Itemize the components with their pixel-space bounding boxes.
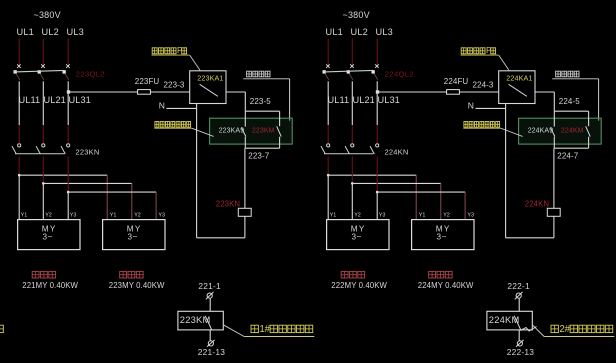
coil 224KN (right) (547, 208, 560, 216)
contact 224KM (right) (586, 126, 591, 136)
label 224KA1 (right) (506, 73, 532, 82)
wire UL31 (left) (67, 81, 69, 143)
node UL3 (left) (67, 27, 84, 37)
wire to motor1 terminal Y1 (left) (18, 175, 20, 219)
contact box 223KM (left) (178, 311, 223, 330)
wire phase UL3 incoming (left) (67, 39, 69, 67)
svg-text:Y1: Y1 (419, 213, 426, 219)
svg-text:221-13: 221-13 (198, 347, 225, 357)
wire relay output to contacts (right) (535, 92, 554, 111)
label UL21 (right) (353, 95, 375, 105)
callout label from power supply P-line (left) (152, 46, 201, 71)
svg-text:Y1: Y1 (330, 213, 337, 219)
wire coil to N return (left) (197, 104, 245, 238)
svg-text:UL21: UL21 (44, 95, 66, 105)
wire distribution phase 1 (right) (328, 174, 416, 176)
svg-text:224KA9: 224KA9 (528, 127, 554, 134)
svg-text:224KM: 224KM (561, 127, 584, 134)
svg-text:3~: 3~ (43, 232, 53, 241)
motor 222MY 0.40KW box (right) (327, 220, 389, 250)
wire to motor1 terminal Y3 (right) (376, 192, 378, 220)
label 223KA1 (left) (197, 73, 223, 82)
wire phase 2 contactor to junction (right) (351, 156, 353, 183)
wire contacts to coil (left) (244, 148, 246, 208)
svg-text:UL1: UL1 (17, 27, 34, 37)
label wire number 223-7 (left) (248, 151, 269, 160)
junction phase 1 (left) (18, 174, 21, 177)
terminal stud 222-1 (right) (515, 292, 523, 300)
svg-text:UL3: UL3 (67, 27, 84, 37)
wire to motor2 terminal Y1 (right) (415, 175, 417, 219)
svg-text:222-1: 222-1 (507, 281, 530, 291)
svg-text:223QL2: 223QL2 (76, 70, 105, 79)
terminal labels motor2 (right) (419, 213, 474, 219)
svg-text:UL21: UL21 (353, 95, 375, 105)
junction phase 3 (right) (376, 191, 379, 194)
wire contacts to coil (right) (553, 148, 555, 208)
svg-text:UL31: UL31 (69, 95, 91, 105)
svg-text:224FU: 224FU (444, 77, 469, 86)
label UL11 (right) (328, 95, 350, 105)
svg-text:224QL2: 224QL2 (385, 70, 414, 79)
label 224QL2 breaker designator (right) (385, 70, 414, 79)
wire to motor1 terminal Y1 (right) (327, 175, 329, 219)
wire distribution phase 2 (right) (352, 182, 441, 184)
junction phase 2 (left) (42, 182, 45, 185)
svg-text:3~: 3~ (437, 232, 447, 241)
terminal labels motor1 (right) (330, 213, 386, 219)
svg-text:222MY 0.40KW: 222MY 0.40KW (331, 281, 387, 290)
svg-text:223FU: 223FU (135, 77, 160, 86)
svg-text:223KM: 223KM (252, 127, 275, 134)
label wire number 223-5 (left) (250, 97, 271, 106)
label brake (motor2) (left) (120, 271, 143, 278)
svg-text:3~: 3~ (352, 232, 362, 241)
label 224MY 0.40KW (right) (418, 281, 474, 290)
clipped label fragment at left edge (0, 325, 3, 332)
wire phase UL2 incoming (left) (42, 39, 44, 67)
svg-text:223KA1: 223KA1 (197, 73, 223, 82)
motor 221MY 0.40KW box (left) (18, 220, 80, 250)
fuse 224FU (right) (447, 90, 460, 95)
wire distribution phase 1 (left) (19, 174, 107, 176)
svg-text:~380V: ~380V (34, 10, 61, 20)
label 223QL2 breaker designator (left) (76, 70, 105, 79)
wire phase UL2 incoming (right) (351, 39, 353, 67)
wire phase 3 contactor to junction (right) (376, 156, 378, 192)
wire to motor1 terminal Y3 (left) (67, 192, 69, 220)
svg-text:Y3: Y3 (467, 213, 474, 219)
circuit breaker 223QL2 (left) (14, 64, 70, 80)
terminal stud 222-13 (right) (516, 340, 524, 347)
contact blade inside 223KA1 (left) (200, 84, 218, 96)
terminal labels motor1 (left) (21, 213, 77, 219)
wire terminal to contact box (left) (209, 299, 211, 312)
contact 223KA9 (left) (241, 127, 246, 136)
svg-text:UL11: UL11 (328, 95, 350, 105)
wire control branch to fuse (left) (68, 91, 190, 93)
label wire number 224-5 (right) (559, 97, 580, 106)
svg-text:223KN: 223KN (216, 200, 240, 209)
wire UL21 (left) (42, 81, 44, 143)
wire phase 2 contactor to junction (left) (42, 156, 44, 183)
label 223FU (left) (135, 77, 160, 86)
svg-text:221-1: 221-1 (198, 281, 221, 291)
wire UL31 (right) (376, 81, 378, 143)
svg-text:223-3: 223-3 (164, 80, 185, 89)
label brake (motor1) (right) (341, 271, 364, 278)
wire phase 1 contactor to junction (left) (18, 156, 20, 175)
callout to VFD cabinet (left) (223, 324, 314, 337)
svg-text:N: N (159, 100, 165, 110)
node UL1 (right) (326, 27, 343, 37)
parallel contact branch box (left) (245, 111, 279, 148)
callout label from main control circuit (left) (154, 122, 213, 137)
svg-text:Y1: Y1 (110, 213, 117, 219)
label wire number 224-3 (right) (473, 80, 494, 89)
svg-text:UL2: UL2 (42, 27, 59, 37)
svg-text:221MY 0.40KW: 221MY 0.40KW (22, 281, 78, 290)
terminal stud 221-1 (left) (206, 292, 214, 300)
label brake (motor1) (left) (32, 271, 55, 278)
label ~380V supply (left) (34, 10, 61, 20)
node UL2 (right) (351, 27, 368, 37)
svg-text:224-3: 224-3 (473, 80, 494, 89)
svg-text:UL31: UL31 (378, 95, 400, 105)
svg-text:N: N (468, 100, 474, 110)
svg-text:Y2: Y2 (354, 213, 361, 219)
svg-text:222-13: 222-13 (507, 347, 534, 357)
label 223KM (left) (252, 127, 275, 134)
highlight green box around contacts (left) (210, 118, 293, 144)
svg-text:~380V: ~380V (343, 10, 370, 20)
label 222MY 0.40KW (right) (331, 281, 387, 290)
relay box 223KA1 (left) (190, 71, 226, 104)
wire to motor1 terminal Y2 (right) (351, 183, 353, 219)
svg-text:UL11: UL11 (19, 95, 41, 105)
contact box 224KM (right) (487, 311, 532, 330)
svg-text:224-7: 224-7 (557, 151, 578, 160)
label 224KA9 (right) (528, 127, 554, 134)
contact 223KM (left) (277, 126, 282, 136)
label terminal 221-1 (left) (198, 281, 221, 291)
wire UL21 (right) (351, 81, 353, 143)
svg-text:Y2: Y2 (443, 213, 450, 219)
terminal stud 221-13 (left) (207, 340, 215, 347)
svg-text:223-7: 223-7 (248, 151, 269, 160)
wire N (left) (167, 107, 197, 109)
svg-text:Y2: Y2 (45, 213, 52, 219)
junction on UL31 to control branch (left) (67, 90, 70, 93)
label UL31 (right) (378, 95, 400, 105)
coil 223KN (left) (238, 208, 251, 216)
svg-text:224KM: 224KM (489, 314, 520, 325)
parallel contact branch box (right) (554, 111, 588, 148)
motor 224MY 0.40KW box (right) (412, 220, 474, 250)
wire contact box to terminal (right) (518, 330, 520, 341)
label 224KN contactor (right) (385, 147, 409, 156)
svg-text:3~: 3~ (128, 232, 138, 241)
label brake (motor2) (right) (429, 271, 452, 278)
svg-text:UL3: UL3 (376, 27, 393, 37)
terminal labels motor2 (left) (110, 213, 165, 219)
wire to motor2 terminal Y1 (left) (106, 175, 108, 219)
wire N (right) (476, 107, 506, 109)
label ~380V supply (right) (343, 10, 370, 20)
label terminal 221-13 (left) (198, 347, 225, 357)
wire phase UL3 incoming (right) (376, 39, 378, 67)
label coil 223KN (left) (216, 200, 240, 209)
node UL1 (left) (17, 27, 34, 37)
wire phase UL1 incoming (left) (18, 39, 20, 67)
label 221MY 0.40KW (left) (22, 281, 78, 290)
wire control branch to fuse (right) (377, 91, 499, 93)
wire to motor2 terminal Y3 (right) (464, 192, 466, 220)
wire UL11 (left) (18, 81, 20, 143)
svg-text:223KA9: 223KA9 (219, 127, 245, 134)
wire to motor2 terminal Y2 (right) (440, 183, 442, 219)
label wire number 223-3 (left) (164, 80, 185, 89)
wire distribution phase 2 (left) (43, 182, 132, 184)
label 224FU (right) (444, 77, 469, 86)
callout label emergency valve (left) (243, 71, 289, 121)
label 223KA9 (left) (219, 127, 245, 134)
svg-text:223KN: 223KN (76, 147, 100, 156)
svg-text:Y1: Y1 (21, 213, 28, 219)
svg-text:224KA1: 224KA1 (506, 73, 532, 82)
wire phase 1 contactor to junction (right) (327, 156, 329, 175)
wire relay output to contacts (left) (226, 92, 245, 111)
highlight green box around contacts (right) (519, 118, 602, 144)
callout label emergency valve (right) (552, 71, 598, 121)
label UL11 (left) (19, 95, 41, 105)
label N (left) (159, 100, 165, 110)
wire to motor2 terminal Y3 (left) (155, 192, 157, 220)
junction phase 3 (left) (67, 191, 70, 194)
label UL31 (left) (69, 95, 91, 105)
wire coil to N return (right) (506, 104, 554, 238)
svg-text:224MY 0.40KW: 224MY 0.40KW (418, 281, 474, 290)
label UL21 (left) (44, 95, 66, 105)
callout label from power supply P-line (right) (461, 46, 510, 71)
junction phase 2 (right) (351, 182, 354, 185)
callout to VFD cabinet (right) (521, 324, 615, 337)
motor 223MY 0.40KW box (left) (103, 220, 165, 250)
contactor 223KN main contacts (left) (12, 144, 70, 154)
svg-text:223KM: 223KM (180, 314, 211, 325)
svg-text:Y3: Y3 (70, 213, 77, 219)
wire phase UL1 incoming (right) (327, 39, 329, 67)
label N (right) (468, 100, 474, 110)
contact 224KA9 (right) (550, 127, 555, 136)
svg-text:224KN: 224KN (525, 200, 549, 209)
wire distribution phase 3 (left) (68, 191, 156, 193)
wire contact box to terminal (left) (209, 330, 211, 341)
wire phase 3 contactor to junction (left) (67, 156, 69, 192)
junction on UL31 to control branch (right) (376, 90, 379, 93)
node UL3 (right) (376, 27, 393, 37)
callout label from main control circuit (right) (463, 122, 522, 137)
label terminal 222-1 (right) (507, 281, 530, 291)
label coil 224KN (right) (525, 200, 549, 209)
svg-text:223MY 0.40KW: 223MY 0.40KW (109, 281, 165, 290)
svg-text:223-5: 223-5 (250, 97, 271, 106)
label 223KN contactor (left) (76, 147, 100, 156)
junction phase 1 (right) (327, 174, 330, 177)
circuit breaker 224QL2 (right) (323, 64, 379, 80)
svg-text:Y3: Y3 (379, 213, 386, 219)
wire to motor2 terminal Y2 (left) (131, 183, 133, 219)
relay box 224KA1 (right) (499, 71, 535, 104)
wire UL11 (right) (327, 81, 329, 143)
wire to motor1 terminal Y2 (left) (42, 183, 44, 219)
svg-text:UL1: UL1 (326, 27, 343, 37)
label terminal 222-13 (right) (507, 347, 534, 357)
label 223MY 0.40KW (left) (109, 281, 165, 290)
label wire number 224-7 (right) (557, 151, 578, 160)
fuse 223FU (left) (138, 90, 151, 95)
node UL2 (left) (42, 27, 59, 37)
contactor 224KN main contacts (right) (321, 144, 379, 154)
svg-text:Y3: Y3 (158, 213, 165, 219)
label 224KM (right) (561, 127, 584, 134)
contact blade inside 224KA1 (right) (509, 84, 527, 96)
svg-text:224-5: 224-5 (559, 97, 580, 106)
svg-text:UL2: UL2 (351, 27, 368, 37)
svg-text:Y2: Y2 (134, 213, 141, 219)
wire terminal to contact box (right) (518, 299, 520, 312)
svg-text:224KN: 224KN (385, 147, 409, 156)
wire distribution phase 3 (right) (377, 191, 465, 193)
